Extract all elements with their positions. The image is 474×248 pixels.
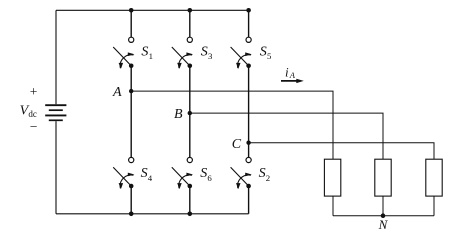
wire leg2 middle segment <box>189 66 191 158</box>
svg-text:dc: dc <box>28 109 37 119</box>
svg-text:3: 3 <box>208 51 213 61</box>
svg-text:S: S <box>141 44 148 59</box>
resistor load phase A <box>324 159 340 196</box>
battery Vdc plates <box>45 105 66 120</box>
label S3 <box>201 44 213 61</box>
wire bottom rail <box>56 213 249 215</box>
node A <box>129 89 133 93</box>
switch S4 <box>113 157 134 189</box>
svg-text:A: A <box>289 70 296 80</box>
svg-text:4: 4 <box>148 173 153 183</box>
svg-text:S: S <box>201 44 208 59</box>
switch S1 <box>113 37 134 69</box>
wire load A bottom <box>332 196 334 216</box>
junction bottom rail leg1 <box>129 212 134 217</box>
label S1 <box>141 44 153 61</box>
svg-text:2: 2 <box>266 173 270 183</box>
svg-text:i: i <box>285 65 289 80</box>
wire leg2 bottom stub <box>189 186 191 214</box>
junction top rail leg1 <box>129 8 134 13</box>
switch S5 <box>231 37 252 69</box>
wire leg3 top stub <box>248 10 250 37</box>
wire top rail <box>56 9 249 11</box>
svg-text:S: S <box>200 166 207 181</box>
svg-text:S: S <box>259 166 266 181</box>
svg-text:1: 1 <box>149 51 153 61</box>
svg-text:6: 6 <box>207 173 212 183</box>
wire load C bottom <box>433 196 435 216</box>
label S5 <box>260 44 272 61</box>
wire battery top vertical <box>55 10 57 104</box>
svg-text:A: A <box>112 85 122 100</box>
resistor load phase C <box>426 159 442 196</box>
wire leg3 bottom stub <box>248 186 250 214</box>
switch S6 <box>172 157 193 189</box>
svg-text:S: S <box>141 166 148 181</box>
svg-text:5: 5 <box>267 51 272 61</box>
resistor load phase B <box>375 159 391 196</box>
junction bottom rail leg2 <box>188 212 193 217</box>
svg-text:−: − <box>30 119 38 134</box>
svg-text:N: N <box>378 217 389 232</box>
svg-text:C: C <box>232 137 242 152</box>
switch S3 <box>172 37 193 69</box>
label iA current <box>285 65 296 80</box>
wire leg1 bottom stub <box>130 186 132 214</box>
wire load B bottom <box>382 196 384 216</box>
wire neutral bus <box>333 215 434 217</box>
arrow iA <box>281 79 304 83</box>
wire leg2 top stub <box>189 10 191 37</box>
wire phase A feed <box>131 91 333 159</box>
wire leg1 top stub <box>130 10 132 37</box>
node B <box>188 111 192 115</box>
node N <box>381 213 386 218</box>
node C <box>246 141 250 145</box>
wire phase C feed <box>249 143 434 160</box>
label S4 <box>141 166 153 183</box>
wire phase B feed <box>190 113 383 159</box>
junction top rail leg2 <box>188 8 193 13</box>
label S6 <box>200 166 212 183</box>
junction top rail leg3 <box>246 8 251 13</box>
switch S2 <box>231 157 252 189</box>
label S2 <box>259 166 271 183</box>
svg-text:S: S <box>260 44 267 59</box>
svg-text:B: B <box>174 107 183 122</box>
wire leg1 middle segment <box>130 66 132 158</box>
wire leg3 middle segment <box>248 66 250 158</box>
wire battery bottom vertical <box>55 121 57 214</box>
svg-text:+: + <box>30 84 38 99</box>
